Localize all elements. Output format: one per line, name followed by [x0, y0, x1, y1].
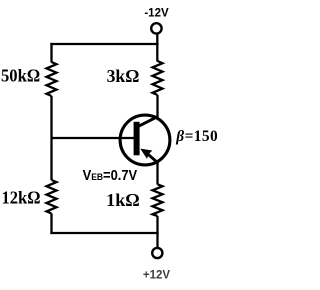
resistor R3 3k zigzag	[153, 61, 163, 95]
resistor R4 1k zigzag	[153, 184, 163, 216]
wire left column middle	[50, 96, 52, 180]
wire emitter lead	[156, 163, 158, 185]
transistor Q1 emitter arrow (PNP)	[140, 149, 152, 159]
wire top rail	[50, 43, 158, 45]
svg-text:3kΩ: 3kΩ	[107, 66, 140, 86]
svg-text:β=150: β=150	[175, 128, 218, 145]
wire bottom rail	[50, 232, 158, 234]
transistor Q1 base bar	[134, 122, 140, 156]
transistor Q1 collector stroke	[138, 116, 158, 126]
label VEB=0.7V	[83, 167, 138, 183]
wire emitter to bottom terminal	[156, 216, 158, 247]
svg-text:+12V: +12V	[143, 270, 171, 282]
wire collector lead	[156, 95, 158, 119]
resistor R1 50k zigzag	[47, 62, 57, 96]
terminal -12V	[151, 23, 161, 33]
wire left column lower	[50, 214, 52, 235]
transistor Q1 circle	[120, 115, 170, 165]
svg-text:1kΩ: 1kΩ	[106, 190, 140, 210]
wire left column upper	[50, 43, 52, 63]
transistor Q1 emitter stroke	[146, 152, 159, 163]
resistor R2 12k zigzag	[47, 180, 57, 214]
svg-text:12kΩ: 12kΩ	[2, 187, 41, 207]
terminal +12V	[152, 248, 162, 258]
wire terminal to top rail	[156, 34, 158, 62]
svg-text:VEB=0.7V: VEB=0.7V	[83, 167, 138, 183]
svg-text:-12V: -12V	[144, 8, 169, 20]
wire base from divider node	[52, 137, 135, 139]
svg-text:50kΩ: 50kΩ	[1, 66, 40, 86]
